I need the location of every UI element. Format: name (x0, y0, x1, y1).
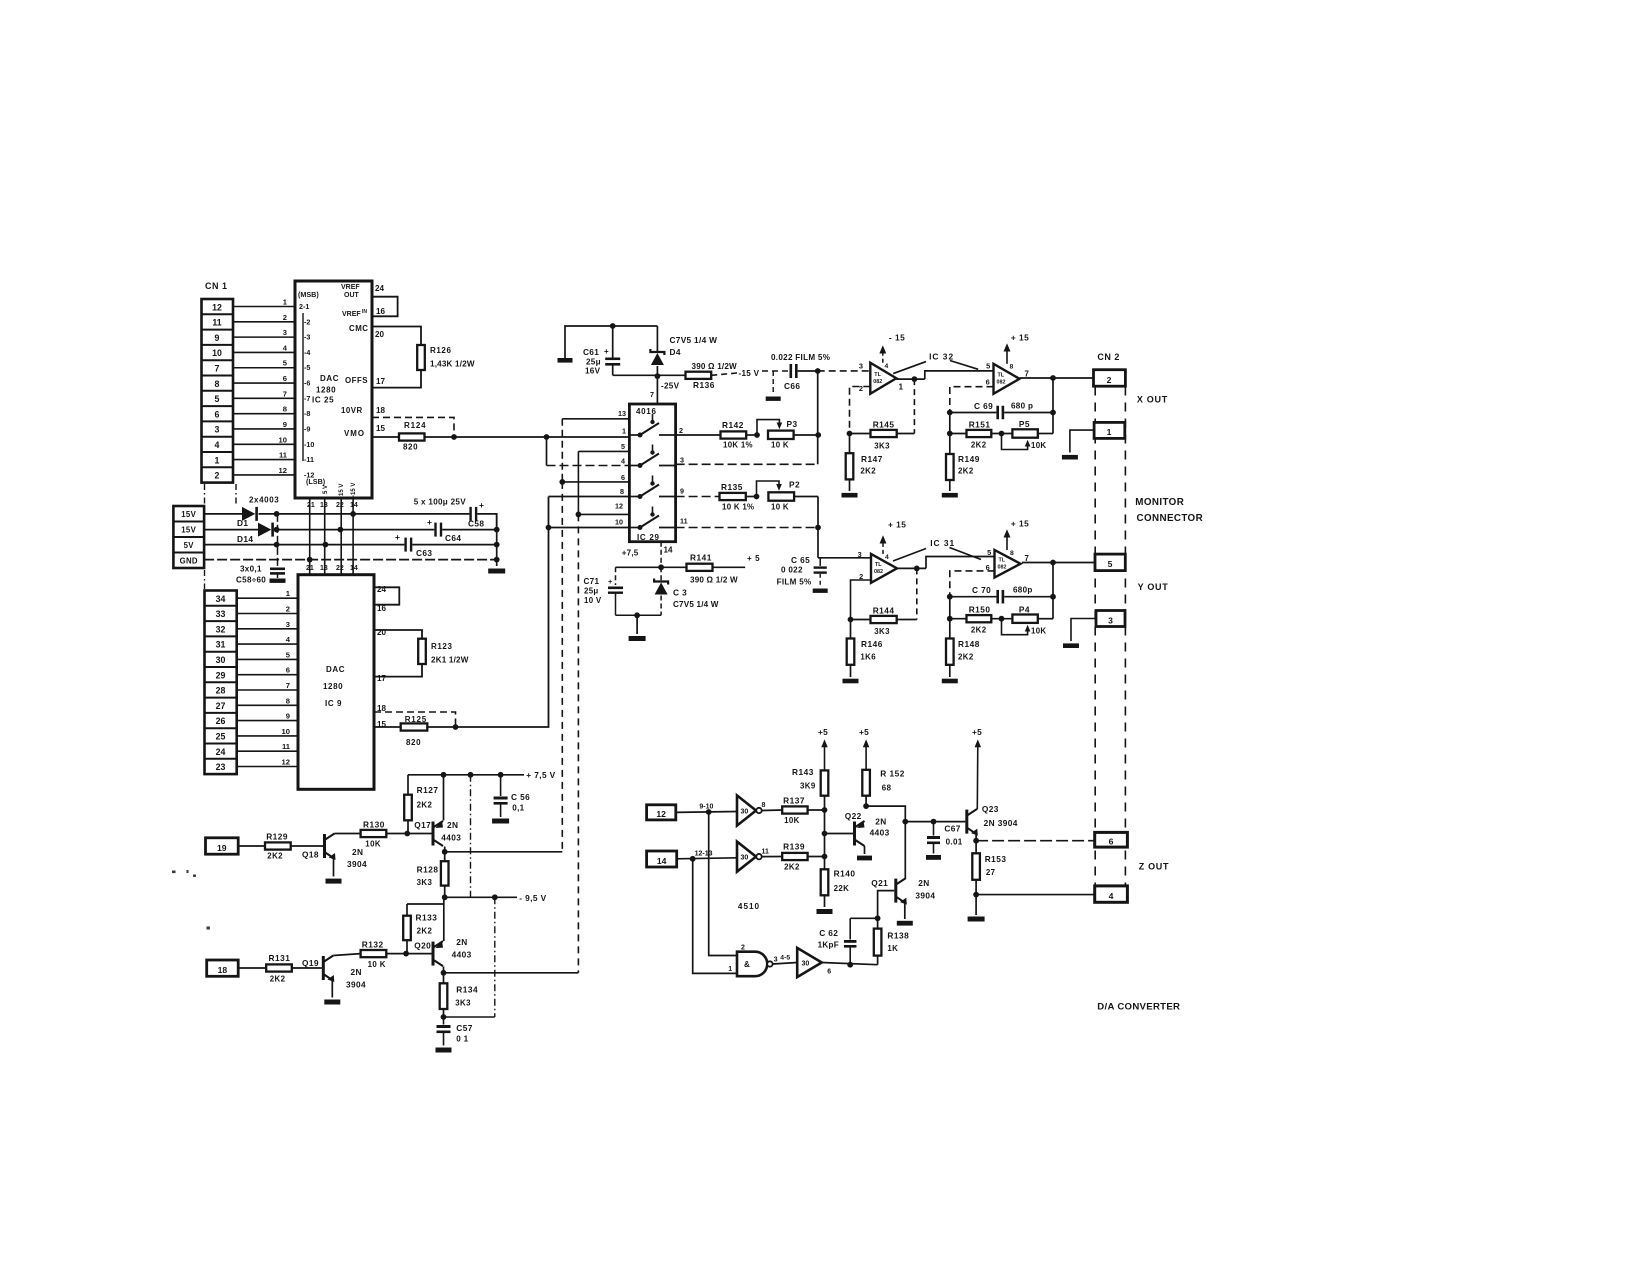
svg-text:3: 3 (859, 362, 863, 371)
wire pin12 to inverter (676, 811, 737, 814)
svg-text:1280: 1280 (323, 682, 343, 691)
svg-text:R144: R144 (873, 606, 895, 616)
svg-text:1: 1 (728, 966, 732, 973)
svg-text:C61: C61 (583, 347, 599, 357)
svg-text:24: 24 (375, 284, 385, 293)
svg-text:5: 5 (987, 548, 991, 557)
svg-text:P3: P3 (787, 419, 798, 429)
wire P5 to output node (1038, 433, 1053, 435)
capacitor C58-C60 3x0.1 (270, 568, 285, 571)
svg-text:5 x 100μ 25V: 5 x 100μ 25V (414, 498, 467, 507)
capacitor C57 0.1 (443, 1017, 445, 1025)
svg-text:14: 14 (350, 565, 358, 572)
DAC U-IC25 body (295, 281, 372, 498)
svg-text:7: 7 (286, 681, 290, 690)
svg-text:Q20: Q20 (414, 941, 431, 951)
ground C61 (558, 358, 573, 363)
svg-text:R147: R147 (861, 454, 883, 464)
svg-text:VMO: VMO (344, 429, 365, 438)
svg-text:R128: R128 (417, 865, 439, 875)
node Q23 emitter (975, 835, 977, 854)
svg-text:12: 12 (615, 502, 623, 511)
svg-text:3K3: 3K3 (455, 999, 471, 1008)
svg-text:18: 18 (218, 965, 228, 975)
wire C71 bottom (616, 614, 662, 616)
wire R141 to +5 (713, 566, 746, 568)
svg-text:D14: D14 (237, 534, 253, 544)
svg-text:30: 30 (741, 854, 749, 861)
svg-text:0.01: 0.01 (946, 838, 963, 847)
svg-text:5: 5 (1108, 559, 1113, 569)
wire IC29 pin14 down (660, 542, 662, 568)
ground C56 (492, 819, 509, 824)
svg-text:Y OUT: Y OUT (1138, 582, 1169, 592)
wire R136 to -15V (711, 373, 737, 375)
wire IC32a feedback down (913, 379, 915, 433)
wire C61 top loop (565, 326, 657, 358)
node VMO-R124 (451, 434, 457, 440)
connector pin 18 box (207, 960, 239, 976)
potentiometer P2 (768, 492, 794, 500)
resistor R127 (407, 775, 409, 795)
wire Y signal into IC29 pin 8 (549, 496, 630, 498)
svg-text:7: 7 (650, 390, 654, 399)
wire IC25 pin21 to GND / IC9 (309, 498, 311, 575)
svg-text:2: 2 (859, 384, 863, 393)
svg-text:C7V5 1/4 W: C7V5 1/4 W (673, 600, 719, 609)
wire R125 to IC29 (Y signal) (427, 497, 548, 728)
resistor R153 27 (972, 853, 980, 880)
transistor Q17 2N4403 (432, 822, 435, 846)
svg-text:R149: R149 (958, 454, 980, 464)
connector CN2 pin 5 (1095, 554, 1125, 571)
connector CN2 pin 1 (1094, 422, 1125, 438)
potentiometer P5 (1012, 429, 1037, 437)
resistor R141 390ohm (687, 564, 713, 571)
svg-text:12-13: 12-13 (695, 851, 713, 858)
svg-text:8: 8 (620, 487, 624, 496)
svg-text:IC 29: IC 29 (637, 533, 660, 542)
wire +15V rail after D14 (275, 529, 435, 531)
svg-text:5 V: 5 V (323, 485, 329, 494)
wire IC9 VREF loop (374, 587, 399, 604)
svg-text:10: 10 (615, 518, 623, 527)
wire R129 to Q18 base (291, 845, 323, 847)
svg-text:34: 34 (216, 594, 226, 604)
wire R137 to divider rail (808, 809, 825, 811)
wire C61 bottom to node (613, 374, 658, 376)
svg-text:7: 7 (215, 364, 220, 374)
svg-text:C64: C64 (445, 533, 461, 543)
svg-text:R133: R133 (416, 913, 438, 923)
wire node to C62 (850, 917, 877, 919)
svg-text:30: 30 (802, 961, 810, 968)
svg-text:15V: 15V (181, 526, 196, 535)
ground bypass caps (270, 579, 286, 583)
ground CN2 pin3 (1063, 643, 1079, 648)
capacitor C62 1KpF (849, 918, 851, 939)
wire Q20 collector node (443, 967, 445, 984)
svg-text:R127: R127 (417, 785, 439, 795)
svg-text:9-10: 9-10 (699, 804, 713, 811)
node R145 R147 (847, 431, 853, 437)
svg-text:C67: C67 (944, 824, 960, 834)
zener diode D4 C7V5 (656, 326, 658, 352)
svg-text:11: 11 (762, 849, 770, 856)
node C62 R138 top (875, 915, 881, 921)
svg-text:18: 18 (376, 406, 386, 415)
svg-text:2K2: 2K2 (958, 467, 974, 476)
svg-text:4: 4 (215, 440, 220, 450)
power +5 arrow R152 (865, 744, 867, 770)
ground C65 (813, 589, 828, 593)
wire P3 to X summing node (794, 434, 819, 436)
svg-text:30: 30 (741, 808, 749, 815)
svg-text:4403: 4403 (870, 828, 890, 838)
svg-text:6: 6 (286, 666, 290, 675)
ground Q22 (857, 856, 872, 861)
svg-text:25μ: 25μ (586, 358, 601, 367)
wire Q21 base loop (878, 891, 895, 919)
svg-text:20: 20 (375, 330, 385, 339)
power connector 15V/15V/5V/GND (173, 506, 204, 568)
svg-text:13: 13 (618, 409, 626, 418)
resistor R134 (440, 983, 448, 1009)
svg-text:2-1: 2-1 (299, 302, 309, 311)
svg-text:R153: R153 (985, 854, 1007, 864)
svg-text:2K2: 2K2 (971, 626, 987, 635)
svg-text:- 9,5 V: - 9,5 V (519, 893, 546, 903)
resistor R143 3K9 (824, 770, 826, 810)
svg-text:CONNECTOR: CONNECTOR (1137, 513, 1204, 524)
svg-text:R141: R141 (690, 553, 712, 563)
svg-text:10VR: 10VR (341, 406, 363, 415)
wire pin18 to R131 (238, 967, 266, 969)
wire C64 to common ground node (442, 529, 497, 531)
ground Q18 (326, 879, 342, 884)
svg-text:VREF: VREF (341, 284, 360, 291)
svg-text:3x0,1: 3x0,1 (240, 565, 262, 574)
ground R147 (842, 493, 858, 498)
node R144 R146 (848, 617, 854, 623)
wire +15V rail (204, 529, 258, 531)
node Q22 emitter R152 (863, 803, 869, 809)
svg-text:3: 3 (858, 550, 862, 559)
capacitor C56 0.1 (500, 775, 502, 796)
transistor Q20 2N4403 (432, 942, 435, 966)
svg-text:0.022 FILM 5%: 0.022 FILM 5% (771, 353, 830, 362)
svg-text:6: 6 (215, 409, 220, 419)
wire bypass cap branch (277, 514, 279, 567)
svg-text:6: 6 (283, 374, 287, 383)
svg-text:C58: C58 (468, 519, 484, 529)
svg-text:DAC: DAC (326, 665, 345, 674)
wire X control to bus A (445, 851, 563, 853)
svg-text:820: 820 (406, 738, 421, 747)
wire pin12 branch down to gate (709, 812, 737, 956)
svg-text:IC 25: IC 25 (312, 396, 334, 405)
wire Y signal into IC29 pin 10 (549, 527, 630, 529)
wire R153 bottom to CN2 pin4 (976, 894, 1095, 896)
svg-text:2x4003: 2x4003 (249, 496, 279, 505)
connector CN2 pin 2 (1094, 370, 1126, 387)
svg-text:TL: TL (999, 557, 1006, 563)
wire IC25 pin13 to 5V / IC9 (324, 498, 326, 575)
wire IC29 pin7 supply (656, 376, 658, 404)
node R151-P5 (991, 433, 1012, 435)
wire IC32b output to CN2 pin2 (1020, 377, 1094, 379)
transistor Q18 2N3904 (323, 834, 326, 858)
svg-text:R137: R137 (783, 796, 805, 806)
wire control bus B down to Q20 (577, 514, 579, 972)
wire IC32a inverting input (850, 387, 871, 434)
svg-text:10: 10 (212, 348, 222, 358)
svg-text:12: 12 (282, 758, 290, 767)
wire IC32a output (896, 378, 925, 380)
resistor R131 (266, 964, 292, 971)
svg-text:1: 1 (1107, 427, 1112, 437)
wire control A drop (561, 419, 563, 482)
svg-text:4403: 4403 (452, 950, 472, 960)
svg-text:R140: R140 (834, 869, 856, 879)
wire Q19 emitter to ground (331, 980, 333, 998)
svg-text:12: 12 (279, 466, 287, 475)
wire Y feedback from output (1052, 563, 1054, 619)
wire Q17 emitter to +7.5V (443, 775, 445, 821)
svg-text:R135: R135 (721, 482, 743, 492)
ground R140 (817, 909, 833, 914)
svg-text:+: + (604, 347, 609, 356)
wire Y control to bus B (444, 972, 579, 974)
wire X feedback from output (1052, 378, 1054, 434)
wire IC9 10VR tap (374, 712, 456, 727)
svg-text:C7V5 1/4 W: C7V5 1/4 W (670, 335, 718, 345)
wire VREF OUT to VREF IN loop (372, 297, 398, 317)
svg-text:R126: R126 (430, 346, 452, 355)
wire node to R136 (657, 374, 685, 376)
wire C66 to IC32 pin3 (798, 370, 818, 372)
wire R133 top rail (407, 903, 444, 905)
svg-text:30: 30 (216, 655, 226, 665)
svg-text:R142: R142 (722, 420, 744, 430)
svg-text:P5: P5 (1019, 419, 1030, 429)
svg-text:OFFS: OFFS (345, 376, 368, 385)
node Y to switch 4 (546, 525, 552, 531)
ground R146 (843, 679, 859, 684)
wire Q18 emitter to ground (333, 858, 335, 877)
svg-text:10 K: 10 K (368, 960, 386, 969)
svg-text:9: 9 (215, 333, 220, 343)
connector pin 12 box (647, 805, 676, 820)
wire pin14 to inverter (677, 858, 737, 859)
svg-text:24: 24 (216, 747, 226, 757)
svg-text:3904: 3904 (346, 980, 366, 990)
wire -9.5V rail (445, 896, 517, 898)
diode D14 (258, 523, 271, 537)
wire P5 wiper loop (1002, 434, 1028, 450)
svg-text:C58÷60: C58÷60 (236, 576, 266, 585)
svg-text:2K2: 2K2 (417, 927, 433, 936)
svg-text:R151: R151 (969, 420, 991, 430)
resistor R142 (721, 431, 747, 438)
svg-text:2N: 2N (875, 817, 886, 827)
zener diode C3 C7V5 (660, 567, 662, 581)
svg-text:9: 9 (286, 712, 290, 721)
svg-text:R130: R130 (363, 820, 385, 830)
board boundary dash-dot (204, 484, 206, 504)
wire IC25 pin22 to +15V / IC9 (340, 498, 342, 575)
wire Q23 base line (905, 821, 965, 823)
wire C70 node down (949, 597, 951, 619)
svg-text:P2: P2 (789, 480, 800, 490)
svg-text:IN: IN (362, 309, 367, 315)
svg-text:R148: R148 (958, 639, 980, 649)
wire CMC to R126 (372, 327, 421, 346)
connector CN2 pin 6 (1095, 832, 1128, 847)
node C69 left (947, 410, 953, 416)
svg-text:11: 11 (282, 742, 291, 751)
wire IC31a inverting input (851, 580, 872, 620)
svg-text:4-5: 4-5 (780, 955, 790, 962)
svg-text:3: 3 (680, 456, 684, 465)
potentiometer P3 (768, 431, 794, 439)
resistor R138 1K (877, 918, 879, 928)
svg-text:3: 3 (286, 620, 290, 629)
wire nand to inverter C (773, 963, 798, 965)
wire X summing node vertical (817, 371, 819, 464)
svg-text:9: 9 (680, 487, 684, 496)
resistor R148 (949, 619, 951, 639)
resistor R135 (720, 493, 746, 500)
svg-text:D4: D4 (670, 347, 681, 357)
svg-text:082: 082 (873, 379, 882, 385)
ground Q19 (324, 1000, 340, 1005)
op-amp IC31a (871, 554, 897, 583)
svg-text:(MSB): (MSB) (298, 290, 319, 299)
wire inverter C output (822, 963, 878, 965)
svg-text:0,1: 0,1 (512, 804, 524, 813)
svg-text:-2: -2 (304, 317, 310, 326)
transistor Q21 2N3904 (894, 879, 897, 903)
svg-text:R139: R139 (783, 842, 805, 852)
ground R148 (942, 679, 958, 684)
svg-text:390 Ω 1/2 W: 390 Ω 1/2 W (690, 576, 738, 585)
svg-text:+: + (608, 577, 613, 586)
svg-text:8: 8 (1010, 364, 1014, 371)
wire 5V rail (204, 544, 404, 546)
wire divider rail (824, 810, 826, 869)
svg-text:8: 8 (1010, 550, 1014, 557)
svg-text:6: 6 (1109, 837, 1114, 847)
wire control bus A down to Q17 (561, 482, 563, 852)
wire CN1 data bus to IC25 (233, 306, 295, 308)
ground R153 (975, 895, 977, 915)
svg-text:22: 22 (336, 502, 344, 509)
svg-text:17: 17 (376, 377, 386, 386)
svg-text:R124: R124 (404, 421, 426, 430)
svg-text:C 69: C 69 (974, 401, 993, 411)
svg-text:TL: TL (875, 562, 882, 568)
svg-text:68: 68 (882, 784, 892, 793)
svg-text:1,43K 1/2W: 1,43K 1/2W (430, 360, 475, 369)
svg-text:16V: 16V (585, 367, 601, 376)
svg-text:Q17: Q17 (414, 820, 431, 830)
wire control B pin 5 (578, 450, 629, 452)
wire rail to Q22 base (825, 833, 854, 835)
svg-text:3: 3 (1108, 616, 1113, 626)
resistor R151 (950, 433, 967, 435)
svg-text:680p: 680p (1013, 586, 1033, 595)
resistor R145 (850, 433, 871, 435)
svg-text:VREF: VREF (342, 311, 361, 318)
connector pin 19 box (206, 838, 239, 854)
wire inverter A to R137 (762, 809, 783, 812)
wire R123 to IC9 OFFS (374, 664, 422, 677)
svg-text:25μ: 25μ (584, 587, 599, 596)
resistor R152 68 (865, 796, 867, 806)
svg-text:2N: 2N (352, 847, 363, 857)
svg-text:22: 22 (336, 565, 344, 572)
svg-text:C 62: C 62 (819, 928, 838, 938)
svg-text:10K 1%: 10K 1% (723, 441, 753, 450)
svg-text:4: 4 (1109, 891, 1114, 901)
svg-text:R145: R145 (873, 420, 895, 430)
scan specks (172, 870, 210, 930)
wire Q23 collector to +5 (976, 744, 979, 810)
svg-text:5: 5 (215, 394, 220, 404)
svg-text:+5: +5 (859, 727, 869, 737)
svg-text:10K: 10K (365, 840, 381, 849)
op-amp IC32b (994, 364, 1020, 394)
svg-text:082: 082 (998, 564, 1007, 570)
svg-text:+7,5: +7,5 (622, 549, 639, 558)
op-amp IC31b (995, 550, 1021, 578)
svg-text:-3: -3 (304, 333, 310, 342)
svg-text:R 152: R 152 (880, 769, 905, 779)
inverter gate C (797, 948, 822, 977)
svg-text:13: 13 (320, 502, 328, 509)
svg-text:5V: 5V (184, 541, 195, 550)
resistor R146 (850, 620, 852, 639)
svg-text:2K1 1/2W: 2K1 1/2W (431, 656, 469, 665)
wire IC32b inverting loop (950, 387, 994, 413)
svg-text:-6: -6 (304, 379, 310, 388)
ground C57 (436, 1048, 452, 1053)
svg-text:2N: 2N (918, 878, 929, 888)
power +5 arrow R143 (824, 744, 826, 770)
wire control A pin 6 (562, 481, 629, 483)
transistor Q19 2N3904 (322, 956, 325, 980)
resistor R137 (782, 806, 807, 813)
ground stub at C66 input (772, 371, 774, 393)
svg-text:11: 11 (212, 318, 221, 328)
svg-text:10K: 10K (784, 816, 800, 825)
svg-text:17: 17 (377, 674, 387, 683)
svg-text:Z OUT: Z OUT (1139, 862, 1170, 872)
svg-text:MONITOR: MONITOR (1135, 497, 1184, 508)
node zener supply (658, 564, 664, 570)
svg-text:-4: -4 (304, 348, 310, 357)
capacitor C70 680p (950, 596, 997, 598)
capacitor C61 (612, 326, 614, 358)
wire IC31a out to IC31b in (926, 557, 995, 569)
svg-text:2: 2 (1107, 375, 1112, 385)
switch elements inside IC29 (629, 434, 640, 436)
svg-text:IC 9: IC 9 (325, 699, 342, 708)
svg-text:14: 14 (657, 856, 667, 866)
capacitor C63 (404, 538, 406, 552)
svg-text:32: 32 (216, 624, 226, 634)
